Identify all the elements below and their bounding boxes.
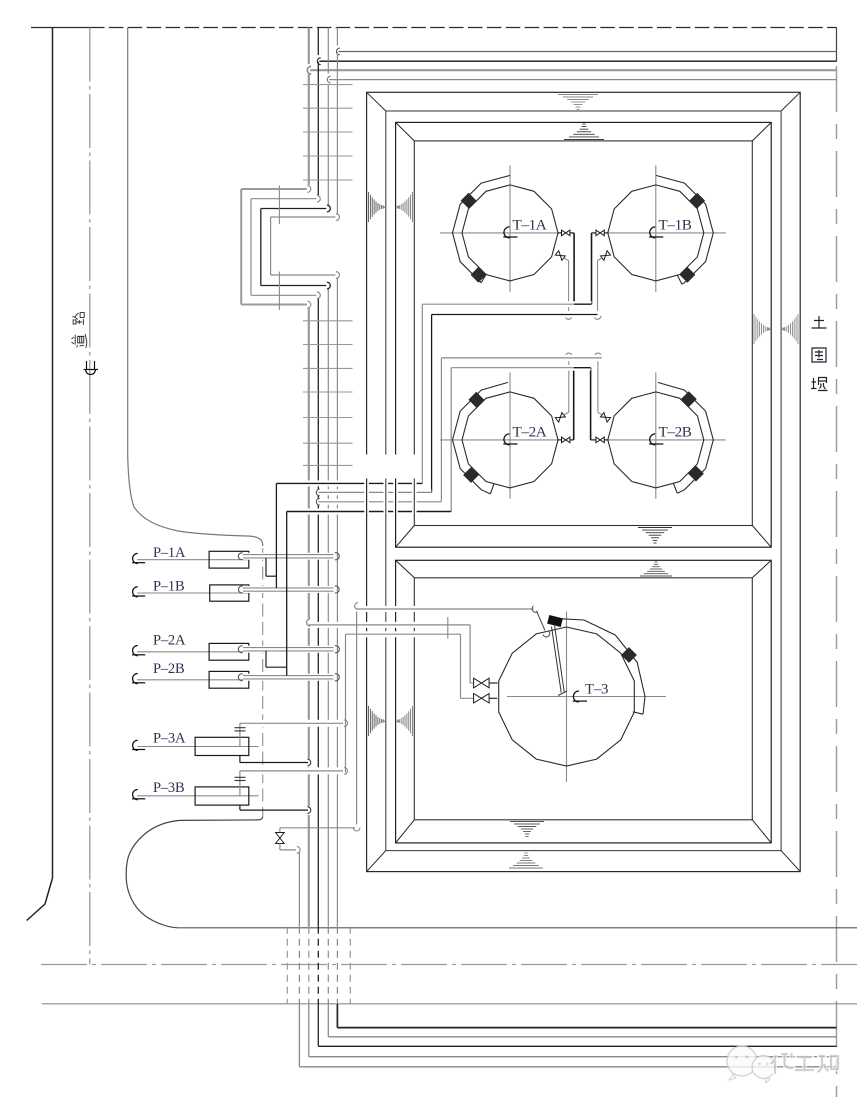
pump P-1A [132, 545, 249, 568]
road label 道路 [72, 313, 87, 348]
pipe tank suction return 2 [316, 498, 441, 505]
pipe riser header A2 [431, 315, 433, 493]
pipe riser T-2B west [590, 368, 592, 440]
slope symbol upper cell right [754, 314, 769, 344]
pipe P-2 jumper [266, 512, 287, 676]
slope symbol outer berm right [783, 314, 798, 344]
tank T-2A [440, 372, 562, 499]
svg-text:P–3B: P–3B [153, 780, 184, 796]
svg-text:P–1A: P–1A [153, 545, 186, 561]
svg-text:T–2A: T–2A [513, 424, 547, 441]
slope symbol upper cell bottom [638, 528, 672, 544]
slope symbol upper cell left [398, 192, 413, 222]
slope symbol lower cell left [398, 706, 413, 736]
pipe T-3 inlet lower [346, 634, 474, 698]
pipe riser T-1A 45-valve [565, 261, 572, 320]
pipe P-1 jumper [266, 483, 276, 588]
pipe T-3 inlet upper [307, 619, 474, 683]
pipe run to top right 2 [317, 58, 836, 65]
header T-1 fill [422, 301, 591, 307]
valve T-2A east [558, 437, 574, 443]
road left edge [27, 28, 53, 921]
pipe detour loop second [251, 195, 320, 298]
pipe sleeve dashes at road crossing [287, 927, 350, 1004]
pump P-2A discharge pipe [238, 646, 339, 653]
pipe detour loop inner [271, 214, 340, 279]
svg-text:T–3: T–3 [585, 682, 608, 698]
valve T-1A southeast 45 [555, 251, 568, 261]
slope fan tip arrows [383, 206, 785, 723]
top boundary dashed line [31, 27, 837, 29]
svg-text:T–1A: T–1A [513, 217, 547, 234]
pipe support tick lower [278, 272, 280, 310]
pump P-1B discharge pipe [238, 586, 339, 593]
pipe detour loop third [261, 205, 331, 289]
svg-text:P–3A: P–3A [153, 731, 186, 747]
pump P-3B suction pipe [240, 805, 311, 813]
road centerline dash-dot [89, 28, 91, 965]
bottom road lower edge [42, 1003, 857, 1005]
valve T-2B west [591, 437, 608, 443]
pipe T-3 drain column [280, 612, 360, 833]
berm lines over header pipes [364, 479, 416, 517]
slope symbol outer berm bottom [509, 853, 543, 868]
pipe bundle bottom elbows to right [299, 852, 836, 1067]
watermark wechat logo 化工加 [727, 1046, 838, 1083]
valve drain [276, 833, 285, 844]
pipe rack cross rungs [303, 85, 353, 466]
pump P-1A discharge pipe [238, 553, 339, 560]
pipe riser header B [440, 358, 442, 502]
tank T-1B [604, 165, 726, 292]
pipe support tick at dike crossing [447, 617, 449, 639]
slope symbol outer berm top [558, 95, 598, 110]
pipe riser T-1B 45-valve [594, 261, 601, 320]
slope symbol upper cell top [564, 124, 604, 140]
pump P-2B discharge pipe [238, 674, 339, 681]
pipe riser header A [421, 304, 423, 483]
pipe riser T-2A 45-valve [565, 353, 572, 412]
pipe riser to T-3 top [345, 634, 347, 772]
pipe run to top right 3 [307, 66, 836, 74]
dike lower cell berm [396, 560, 772, 843]
right boundary dashed line [836, 66, 838, 1097]
pipe support tick upper [278, 186, 280, 225]
svg-text:T–2B: T–2B [659, 424, 692, 441]
slope symbol lower cell top [640, 562, 672, 576]
label 土围堰 [811, 316, 828, 391]
slope symbol outer berm left upper [369, 192, 384, 222]
svg-text:T–1B: T–1B [659, 217, 692, 234]
tank T-3 [499, 612, 666, 783]
valve T-2B northwest 45 [598, 412, 611, 422]
svg-text:P–2B: P–2B [153, 661, 184, 677]
berm sleeve gap band [364, 455, 418, 479]
tank T-1A [440, 165, 562, 292]
pump P-3B top pipe [235, 768, 348, 796]
pipe riser T-1B west [591, 233, 593, 304]
slope symbol lower cell bottom [510, 822, 544, 837]
pipe run to top right 1 [336, 48, 836, 55]
pipe riser T-2B 45-valve [595, 353, 602, 412]
pump P-1B [132, 579, 249, 602]
valve T-2A northeast 45 [555, 412, 569, 422]
svg-text:P–1B: P–1B [153, 579, 184, 595]
valve T-1B west [592, 230, 609, 236]
slope symbol outer berm left lower [369, 706, 384, 736]
right boundary top vertical [836, 28, 838, 62]
header T-2 suction [441, 355, 602, 361]
pump P-3A [132, 731, 259, 756]
pipe rack vertical pipe bundle [309, 28, 338, 1005]
pipe detour loop outer [241, 186, 311, 308]
pump P-2A [132, 633, 249, 661]
dike outer berm 土围堰 outer wall [367, 92, 801, 871]
pump P-3A suction pipe [240, 756, 311, 766]
pipe riser header C [450, 368, 452, 512]
pump P-2B [132, 661, 249, 688]
pipe riser T-1A east [573, 233, 575, 304]
pipe tank suction return 1 [316, 489, 431, 496]
pipe riser T-2A east [573, 368, 575, 440]
header T-2 fill [451, 365, 590, 371]
pipe P-2 discharge header [287, 509, 452, 515]
pump P-3A top pipe [235, 720, 348, 747]
pump P-3B [132, 780, 259, 805]
valve T-3 lower [474, 694, 498, 704]
bottom road centerline dash-dot [41, 964, 857, 966]
pump area enclosure boundary [126, 28, 263, 928]
pipe P-1 discharge header [276, 480, 422, 486]
valve T-1A east [558, 230, 574, 236]
valve T-3 upper [474, 678, 498, 688]
road centerline mark [84, 361, 99, 375]
dike upper cell berm [396, 122, 772, 547]
pipe drain to rack [280, 844, 300, 854]
svg-text:P–2A: P–2A [153, 633, 186, 649]
bottom road upper edge [178, 927, 857, 929]
header T-1 suction [432, 312, 598, 318]
valve T-1B southwest 45 [598, 251, 611, 261]
pipe run to top right 4 [327, 76, 836, 83]
pipe T-3 fill line [355, 603, 550, 637]
tank T-2B [604, 372, 726, 499]
